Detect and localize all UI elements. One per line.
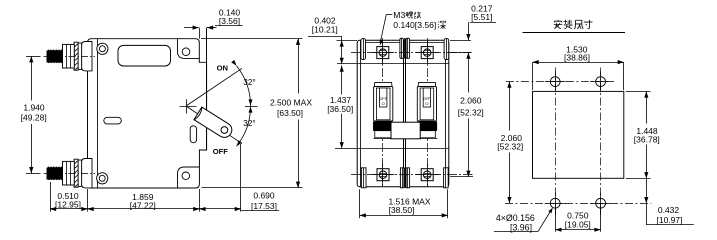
terminal stud boss [82,42,92,71]
terminal hex nut [63,44,75,68]
front view: top inner line [366,42,445,44]
handle lower band [375,131,392,138]
svg-text:0.432: 0.432 [658,205,680,215]
toggle lever tip hole [221,127,228,134]
svg-text:M3: M3 [393,10,405,20]
hole horizontal centerline top [506,81,614,83]
ON swing line [186,68,242,106]
side view: top-left mounting hole [97,43,108,54]
dim 0.750 [19.05] [555,209,557,232]
svg-text:[38.50]: [38.50] [389,205,415,215]
mounting holes [550,77,560,87]
svg-text:[5.51]: [5.51] [471,12,492,22]
handle cap [374,82,392,86]
front view: outline [357,40,449,187]
svg-text:[36.78]: [36.78] [634,134,660,144]
side view: bottom-left mounting hole [97,173,108,184]
svg-text:[17.53]: [17.53] [251,201,277,211]
svg-text:[63.50]: [63.50] [277,108,303,118]
front view: left top tab [361,39,366,60]
svg-text:[3.96]: [3.96] [510,223,532,233]
bottom screws centerline [351,174,473,176]
mounting cutout rectangle [533,91,624,178]
handle black band [417,122,437,131]
dim 2.500 MAX [63.50] [201,38,303,40]
side view: bezel face line [206,28,208,150]
pivot centerline cross [180,106,197,108]
swing arc 32+32 deg [237,66,251,146]
svg-text:0.690: 0.690 [253,190,275,200]
pole centerline right [427,38,429,188]
front view: left bottom tab [361,168,366,188]
screw terminal bottom-right [421,169,433,181]
swing arc middle arrows [245,106,258,108]
svg-text:[52.32]: [52.32] [458,107,484,117]
front view: center seam [403,40,405,122]
terminal lock washer [74,159,78,187]
svg-text:[10.21]: [10.21] [312,24,338,34]
handle cap [418,82,436,86]
front view: right top tab [444,39,449,60]
handle lower band [419,131,436,138]
bottom shared dimension line [87,189,89,212]
terminal lock washer [74,42,78,70]
svg-text:ON: ON [217,64,228,73]
svg-text:32°: 32° [243,78,255,87]
hole vertical centerline right [600,68,602,218]
front view: inner side walls [360,40,362,187]
svg-text:O: O [382,101,385,106]
handle shaft with OFF marking [380,88,387,107]
handle shaft with OFF marking [423,88,430,107]
side view: inner flange line [97,39,99,188]
svg-text:O: O [425,101,428,106]
terminal threaded stud [47,167,63,180]
toggle lever (OFF position) [194,107,232,137]
screw terminal top-right [421,47,433,59]
dim 1.940 [49.28] [26,56,41,58]
handle area baseline [374,138,438,140]
front view: right bottom tab [444,168,449,188]
pole centerline left [382,38,384,188]
svg-text:[3.56]: [3.56] [219,16,240,26]
dim 2.060 [52.32] (front) [450,40,471,42]
svg-text:[19.05]: [19.05] [565,220,591,230]
handle frame [374,87,393,121]
hole horizontal centerline bottom [505,203,651,205]
handle frame [417,87,436,121]
side view: breaker body outline [88,39,207,188]
terminal stud boss [82,159,92,188]
front view: center bottom tab pair [400,168,404,188]
dim 0.432 [10.97] [646,178,648,203]
screw terminal top-left [377,47,389,59]
svg-text:[52.32]: [52.32] [497,142,523,152]
svg-text:2.500 MAX: 2.500 MAX [270,98,312,108]
terminal hex nut [63,161,75,185]
handle black band [373,122,393,131]
side view: top-right tab inner line [178,39,200,59]
svg-text:0.140[3.56]: 0.140[3.56] [393,20,436,30]
svg-text:[49.28]: [49.28] [21,113,47,123]
hole vertical centerline left [555,68,557,218]
side view: bottom-right tab inner line [178,167,200,188]
center trip bar box [391,122,420,139]
front view: center top tab pair [400,38,404,58]
side view: vertical slot [190,126,196,143]
svg-text:2.060: 2.060 [460,95,482,105]
OFF swing line [186,106,242,144]
terminal flat washer [78,43,82,69]
side view: bottom-right hole [182,172,190,180]
svg-text:[47.22]: [47.22] [130,201,156,211]
svg-text:1.940: 1.940 [23,103,45,113]
top screws centerline [351,52,472,54]
stud centerline [44,173,96,175]
dim 2.060 [52.32] (mounting) [509,82,511,131]
side view: nameplate slot [118,45,171,66]
terminal threaded stud [47,50,63,63]
side view: top-right hole [182,48,190,56]
title underline [523,32,626,34]
svg-text:[36.50]: [36.50] [327,104,353,114]
front view: flange divider (top) [337,63,449,65]
dim 1.448 [36.78] [626,91,651,93]
screw terminal bottom-left [377,169,389,181]
svg-text:[38.86]: [38.86] [564,52,590,62]
terminal flat washer [78,160,82,186]
svg-text:OFF: OFF [213,147,229,156]
svg-text:32°: 32° [243,119,255,128]
front view: divider (bottom of handle area) [335,148,449,150]
svg-text:[10.97]: [10.97] [657,215,683,225]
side view: horizontal slot [104,117,122,124]
title: installation dimensions (CJK) [554,20,562,29]
toggle lever base collar arc [195,108,202,120]
stud centerline [44,56,96,58]
